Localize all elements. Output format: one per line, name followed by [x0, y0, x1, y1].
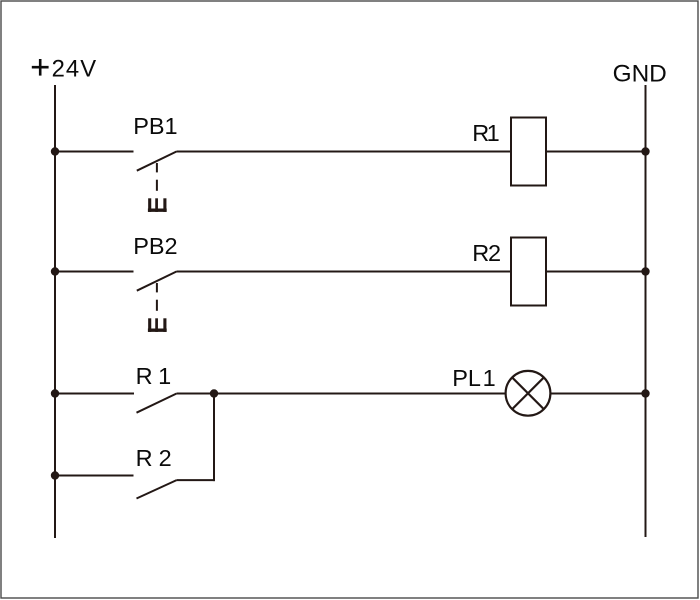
net label +24V — [32, 55, 97, 82]
svg-text:R 1: R 1 — [136, 363, 172, 389]
svg-text:R1: R1 — [472, 120, 499, 146]
svg-text:GND: GND — [613, 60, 667, 87]
wire: coil R2 to GND rail — [546, 271, 646, 273]
node: rung1 left rail junction — [51, 147, 59, 155]
wire: PB2 to coil R2 — [177, 271, 512, 273]
node A: parallel branch junction — [210, 389, 218, 397]
wire: PB1 to coil R1 — [177, 151, 512, 153]
wire: contact R1 to node A and lamp — [177, 393, 506, 395]
svg-text:24V: 24V — [52, 55, 98, 82]
wire: left +24V rail — [54, 85, 56, 538]
relay coil R1 — [511, 118, 546, 186]
wire: contact R2 to vertical branch — [177, 479, 215, 481]
wire: rung2 left rail to PB2 — [55, 271, 134, 273]
wire: rung1 left rail to PB1 — [55, 151, 134, 153]
node: rung1 right rail junction — [641, 147, 649, 155]
pushbutton PB1 (NO momentary contact) — [137, 152, 177, 212]
wire: coil R1 to GND rail — [546, 151, 646, 153]
relay contact R1 (NO) — [137, 394, 177, 413]
pushbutton PB2 (NO momentary contact) — [137, 272, 177, 332]
svg-text:R2: R2 — [472, 240, 501, 266]
lamp PL1 — [506, 371, 551, 416]
node: rung2 left rail junction — [51, 267, 59, 275]
node: rung3 right rail junction — [641, 389, 649, 397]
svg-text:PB2: PB2 — [133, 233, 177, 259]
node: rung2 right rail junction — [641, 267, 649, 275]
svg-text:PB1: PB1 — [133, 113, 177, 139]
wire: rung3 left rail to contact R1 — [55, 393, 134, 395]
relay coil R2 — [511, 238, 546, 306]
wire: right GND rail — [645, 85, 647, 537]
wire: vertical branch from node A down to contact R2 — [213, 394, 215, 482]
relay contact R2 (NO) — [137, 480, 177, 498]
svg-text:PL 1: PL 1 — [452, 365, 495, 391]
wire: rung4 left rail to contact R2 — [55, 475, 134, 477]
node: rung4 left rail junction — [51, 471, 59, 479]
node: rung3 left rail junction — [51, 389, 59, 397]
svg-text:R 2: R 2 — [136, 445, 172, 471]
wire: lamp PL1 to GND rail — [550, 393, 645, 395]
